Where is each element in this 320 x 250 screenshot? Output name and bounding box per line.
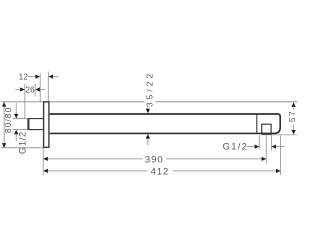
svg-text:12: 12 — [19, 73, 29, 82]
svg-text:57: 57 — [287, 110, 297, 122]
svg-text:412: 412 — [151, 167, 170, 178]
svg-text:35/22: 35/22 — [144, 71, 154, 107]
svg-text:390: 390 — [145, 154, 164, 165]
svg-text:G1/2: G1/2 — [223, 142, 249, 153]
svg-text:26: 26 — [25, 85, 35, 94]
svg-text:G1/2: G1/2 — [17, 131, 27, 154]
svg-text:80/80: 80/80 — [3, 107, 13, 134]
